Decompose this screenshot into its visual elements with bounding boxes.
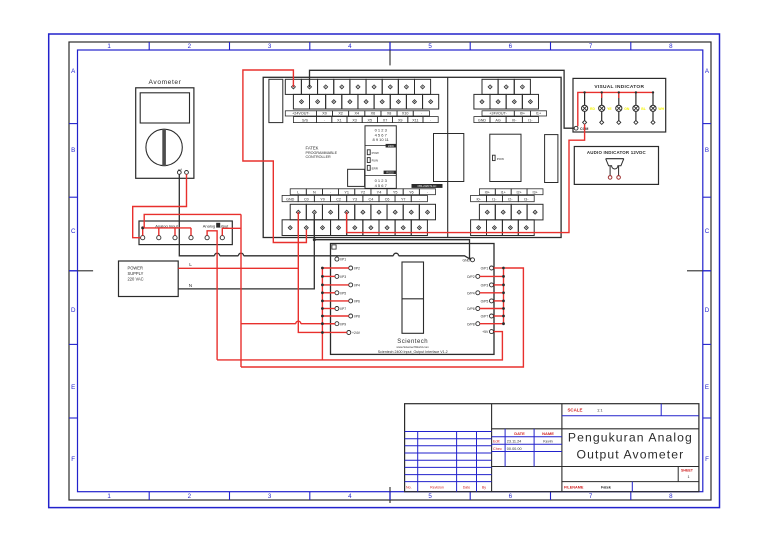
svg-text:Y5: Y5 — [393, 190, 398, 194]
wire: lamp supply bus — [578, 92, 653, 126]
svg-text:Y2: Y2 — [361, 190, 366, 194]
lamp LP4 (BL) — [633, 91, 646, 124]
svg-text:4: 4 — [348, 43, 352, 50]
lamp LP1 (RD) — [582, 91, 596, 124]
U2 rail clip right — [545, 135, 558, 183]
svg-text:X1: X1 — [337, 118, 342, 122]
svg-text:ERR: ERR — [372, 166, 379, 170]
U3 terminal I/P8 — [349, 314, 360, 319]
svg-text:O/P8: O/P8 — [467, 322, 475, 326]
svg-text:RD: RD — [590, 107, 595, 111]
wire: U3 left input bus (red) — [321, 267, 349, 360]
svg-text:+24VOUT-: +24VOUT- — [489, 112, 507, 116]
TB1 terminal 6 — [220, 236, 224, 240]
junction on N wire — [313, 238, 316, 241]
svg-text:RUN: RUN — [372, 159, 379, 163]
svg-text:Analog Output: Analog Output — [203, 223, 229, 228]
svg-text:1:1: 1:1 — [597, 407, 603, 412]
svg-text:O/P5: O/P5 — [481, 300, 489, 304]
wire: TB1 terminal 5 to +5V loop (red) — [207, 231, 217, 360]
svg-text:2: 2 — [188, 493, 192, 500]
svg-text:B: B — [71, 147, 75, 154]
svg-text:GND: GND — [478, 118, 487, 122]
svg-text:X3: X3 — [352, 118, 357, 122]
svg-text:Y1: Y1 — [344, 190, 349, 194]
svg-text:24DC: 24DC — [388, 145, 394, 148]
svg-text:I1-: I1- — [528, 118, 533, 122]
U3 terminal I/P2 — [349, 266, 360, 271]
svg-text:Pengukuran Analog: Pengukuran Analog — [568, 431, 693, 445]
svg-text:·: · — [427, 190, 428, 194]
U3 terminal +5V — [482, 330, 493, 335]
U3 terminal O/P3 — [481, 283, 494, 288]
svg-text:Avometer: Avometer — [149, 79, 182, 86]
svg-text:POW: POW — [372, 151, 379, 155]
svg-text:6: 6 — [509, 43, 513, 50]
svg-text:C4: C4 — [369, 197, 374, 201]
svg-text:23.11.24: 23.11.24 — [507, 440, 522, 444]
U1 model label FBS-24MC — [412, 184, 443, 188]
svg-text:1: 1 — [107, 493, 111, 500]
U1 bottom output terminal rows (L N Y0-Y7) — [282, 189, 435, 236]
buzzer BZ1 — [606, 159, 624, 180]
svg-text:C0: C0 — [304, 197, 309, 201]
svg-text:X7: X7 — [383, 118, 388, 122]
svg-text:7: 7 — [589, 493, 593, 500]
lamp LP2 (YE) — [599, 91, 613, 124]
avometer terminal mA — [177, 171, 181, 175]
svg-text:I0-: I0- — [512, 118, 517, 122]
svg-text:O/P1: O/P1 — [481, 267, 489, 271]
visual indicator panel — [573, 78, 666, 132]
TB1 terminal 4 — [189, 236, 193, 240]
U3 terminal O/P5 — [481, 299, 494, 304]
svg-text:Edit: Edit — [493, 440, 500, 444]
svg-text:Date: Date — [463, 485, 471, 489]
wire: TB1 terminal 6 join (red) — [222, 228, 241, 235]
U3 terminal O/P7 — [481, 314, 494, 319]
TB1 terminal 5 — [205, 236, 209, 240]
lamp LP3 (GN) — [616, 91, 630, 124]
PLC U1 FATEK programmable controller body — [263, 77, 561, 237]
svg-text:I0-: I0- — [476, 197, 481, 201]
U3 terminal +24V — [347, 331, 361, 336]
svg-text:C: C — [71, 228, 76, 235]
svg-text:NAME: NAME — [542, 431, 554, 436]
svg-text:S/S: S/S — [302, 118, 308, 122]
svg-text:VISUAL INDICATOR: VISUAL INDICATOR — [594, 84, 644, 90]
svg-text:I1-: I1- — [492, 197, 497, 201]
svg-text:X9: X9 — [398, 118, 403, 122]
svg-text:SUPPLY: SUPPLY — [128, 271, 144, 276]
U3 terminal GND — [462, 258, 474, 263]
U3 terminal O/P1 — [481, 266, 494, 271]
wire: main vertical distribution (red) — [240, 214, 242, 367]
TB1 terminal 1 — [141, 236, 145, 240]
U3 terminal I/P6 — [349, 299, 360, 304]
interface board U3 Scientech 2400 — [331, 244, 495, 355]
TB1 terminal 3 — [173, 236, 177, 240]
svg-text:B: B — [705, 147, 709, 154]
U3 terminal I/P9 — [335, 322, 346, 327]
svg-text:Output Avometer: Output Avometer — [577, 448, 685, 462]
svg-text:8: 8 — [669, 43, 673, 50]
svg-text:I2+: I2+ — [516, 190, 521, 194]
svg-text:I/P6: I/P6 — [354, 300, 360, 304]
svg-text:+24V: +24V — [352, 331, 361, 335]
svg-text:Scientech: Scientech — [397, 339, 428, 345]
svg-text:DATE: DATE — [514, 431, 525, 436]
svg-text:X5: X5 — [368, 118, 373, 122]
svg-text:L: L — [189, 262, 192, 267]
TB1 terminal 2 — [157, 236, 161, 240]
svg-text:YE: YE — [607, 107, 612, 111]
lamp LP5 (WH) — [650, 91, 665, 124]
U3 terminal I/P3 — [335, 274, 346, 279]
svg-text:4: 4 — [348, 493, 352, 500]
wire: feed to I/P9 (red, hops over L drop) — [241, 321, 335, 324]
svg-text:By: By — [482, 485, 486, 489]
svg-text:E: E — [705, 384, 709, 391]
svg-text:8: 8 — [669, 493, 673, 500]
wire: U3 right output bus (red) — [480, 267, 505, 326]
svg-text:X10: X10 — [402, 112, 409, 116]
svg-text:SCALE: SCALE — [568, 407, 583, 412]
svg-text:I0+: I0+ — [520, 112, 525, 116]
visual indicator COM terminal — [574, 126, 588, 131]
svg-text:I0+: I0+ — [485, 190, 490, 194]
svg-text:I/P1: I/P1 — [340, 258, 346, 262]
svg-text:·: · — [330, 190, 331, 194]
svg-text:8 9 10 11: 8 9 10 11 — [373, 137, 390, 142]
svg-text:I/P4: I/P4 — [354, 284, 360, 288]
svg-text:I3-: I3- — [524, 197, 529, 201]
svg-text:X2: X2 — [338, 112, 343, 116]
svg-text:FBS-24MCT2-AC: FBS-24MCT2-AC — [418, 185, 437, 188]
svg-text:AG: AG — [495, 118, 500, 122]
U3 terminal O/P6 — [467, 307, 480, 312]
svg-text:I/P9: I/P9 — [340, 322, 346, 326]
wire: power supply N to PLC N terminal (black) — [178, 214, 314, 289]
svg-text:220 VAC: 220 VAC — [128, 277, 144, 282]
svg-text:X8: X8 — [387, 112, 392, 116]
analog module U2 top terminals (+24VOUT, I0+, I1+, GND, AG) — [474, 79, 547, 122]
wire: PLC Y1 to visual indicator lamp 1 (red) — [347, 124, 585, 232]
svg-text:Fatek: Fatek — [601, 486, 612, 490]
svg-text:GND: GND — [286, 197, 295, 201]
svg-text:+5V: +5V — [482, 330, 489, 334]
svg-text:3: 3 — [268, 43, 272, 50]
U3 terminal O/P8 — [467, 322, 480, 327]
svg-text:CONTROLLER: CONTROLLER — [306, 155, 332, 159]
U2 rail clip left — [434, 134, 464, 182]
svg-text:F: F — [71, 456, 75, 463]
svg-text:Revision: Revision — [430, 485, 444, 489]
U1 FATEK label — [306, 146, 338, 159]
U1 status panel (I/O LEDs, POW RUN ERR) — [365, 126, 396, 189]
svg-text:O/P7: O/P7 — [481, 315, 489, 319]
wire: power supply L to PLC L terminal (red) — [178, 212, 347, 332]
svg-text:I/P5: I/P5 — [340, 291, 346, 295]
svg-text:·: · — [324, 118, 325, 122]
svg-text:N: N — [189, 283, 192, 288]
svg-text:Scientech 2400 Input_Output In: Scientech 2400 Input_Output Interface V1… — [378, 350, 448, 354]
svg-text:X0: X0 — [322, 112, 327, 116]
avometer M1 (multimeter) — [136, 79, 194, 178]
svg-text:Y3: Y3 — [353, 197, 358, 201]
svg-text:I2-: I2- — [508, 197, 513, 201]
svg-text:I1+: I1+ — [501, 190, 506, 194]
svg-text:X4: X4 — [355, 112, 360, 116]
U3 terminal I/P1 — [335, 257, 346, 262]
terminal strip TB1 Analog Input / Analog Output — [139, 221, 232, 245]
wire: TB1 bus riser to main loop (red) — [144, 214, 241, 228]
svg-text:Y0: Y0 — [320, 197, 325, 201]
svg-text:E: E — [71, 384, 75, 391]
svg-text:C6: C6 — [385, 197, 390, 201]
svg-text:N: N — [313, 190, 316, 194]
svg-text:00.00.00: 00.00.00 — [507, 447, 522, 451]
svg-text:2: 2 — [188, 43, 192, 50]
svg-text:X6: X6 — [371, 112, 376, 116]
svg-text:O/P6: O/P6 — [467, 307, 475, 311]
svg-text:C2: C2 — [336, 197, 341, 201]
svg-text:I/P7: I/P7 — [340, 307, 346, 311]
wire: PLC +24V top terminal loop to C0 (red) — [243, 70, 307, 243]
U3 terminal I/P7 — [335, 307, 346, 312]
svg-text:3: 3 — [268, 493, 272, 500]
wire: avometer mA probe to I/P1 and GND (black) — [179, 174, 470, 259]
wire: PLC +24V- terminal to visual indicator COM (black) — [310, 70, 575, 128]
svg-text:O/P4: O/P4 — [467, 291, 475, 295]
svg-text:F: F — [705, 456, 709, 463]
svg-text:X11: X11 — [412, 118, 418, 122]
wire: branch to I/P1 (black) — [336, 256, 338, 257]
svg-text:C: C — [705, 228, 710, 235]
svg-text:WH: WH — [658, 107, 664, 111]
audio indicator panel — [574, 147, 658, 185]
svg-text:I/P2: I/P2 — [354, 267, 360, 271]
U2 bottom analog input terminals I0-I3 — [471, 189, 543, 236]
avometer terminal COM — [185, 171, 189, 175]
svg-text:1: 1 — [687, 475, 689, 479]
svg-text:Y6: Y6 — [409, 190, 414, 194]
svg-text:POW: POW — [497, 157, 504, 161]
svg-text:4 5 6 7: 4 5 6 7 — [375, 183, 388, 188]
svg-text:www.ScientechWorld.com: www.ScientechWorld.com — [397, 345, 430, 349]
svg-text:·: · — [421, 112, 422, 116]
wire: +5V return under board (red) — [217, 332, 502, 360]
U3 terminal I/P4 — [349, 283, 360, 288]
svg-text:No.: No. — [406, 485, 412, 489]
svg-text:Chec: Chec — [493, 447, 502, 451]
svg-text:POWER: POWER — [128, 265, 144, 270]
svg-text:D: D — [705, 307, 710, 314]
svg-text:7: 7 — [589, 43, 593, 50]
wire: avometer COM probe to TB1 terminal 1 (red) — [133, 174, 187, 237]
U1 port box — [348, 169, 365, 186]
svg-text:I3+: I3+ — [532, 190, 537, 194]
U3 terminal I/P5 — [335, 291, 346, 296]
svg-text:L: L — [297, 190, 299, 194]
U2 POW indicator box — [490, 134, 521, 181]
svg-text:O/P3: O/P3 — [481, 284, 489, 288]
svg-text:5: 5 — [428, 493, 432, 500]
wire: O/P loop bottom return (red) — [241, 268, 523, 367]
svg-text:Y4: Y4 — [377, 190, 382, 194]
svg-text:5: 5 — [428, 43, 432, 50]
svg-text:GN: GN — [624, 107, 630, 111]
svg-text:Y7: Y7 — [401, 197, 406, 201]
U3 terminal O/P4 — [467, 291, 480, 296]
svg-text:·: · — [419, 197, 420, 201]
svg-text:6: 6 — [509, 493, 513, 500]
U1 top input terminal row (24V out, X0-X11) — [285, 79, 438, 122]
wire: N junction to U3 GND (black) — [314, 240, 471, 259]
svg-text:AUDIO INDICATOR 12VDC: AUDIO INDICATOR 12VDC — [587, 150, 647, 155]
wire: TB1 analog input bus (red) — [141, 226, 191, 235]
svg-text:BL: BL — [641, 107, 646, 111]
title block — [405, 404, 699, 492]
svg-text:O/P2: O/P2 — [467, 275, 475, 279]
power supply PS1 220 VAC — [119, 261, 179, 297]
svg-text:I1+: I1+ — [536, 112, 541, 116]
svg-text:SHEET: SHEET — [681, 469, 694, 473]
svg-text:·: · — [430, 118, 431, 122]
U3 terminal O/P2 — [467, 274, 480, 279]
svg-text:1: 1 — [107, 43, 111, 50]
svg-text:+24VOUT-: +24VOUT- — [292, 112, 310, 116]
svg-text:FILENAME: FILENAME — [564, 486, 584, 490]
svg-text:Kevin: Kevin — [543, 440, 553, 444]
svg-text:I/P8: I/P8 — [354, 315, 360, 319]
svg-text:I/P3: I/P3 — [340, 275, 346, 279]
svg-text:D: D — [71, 307, 76, 314]
svg-text:RS232: RS232 — [386, 171, 394, 174]
